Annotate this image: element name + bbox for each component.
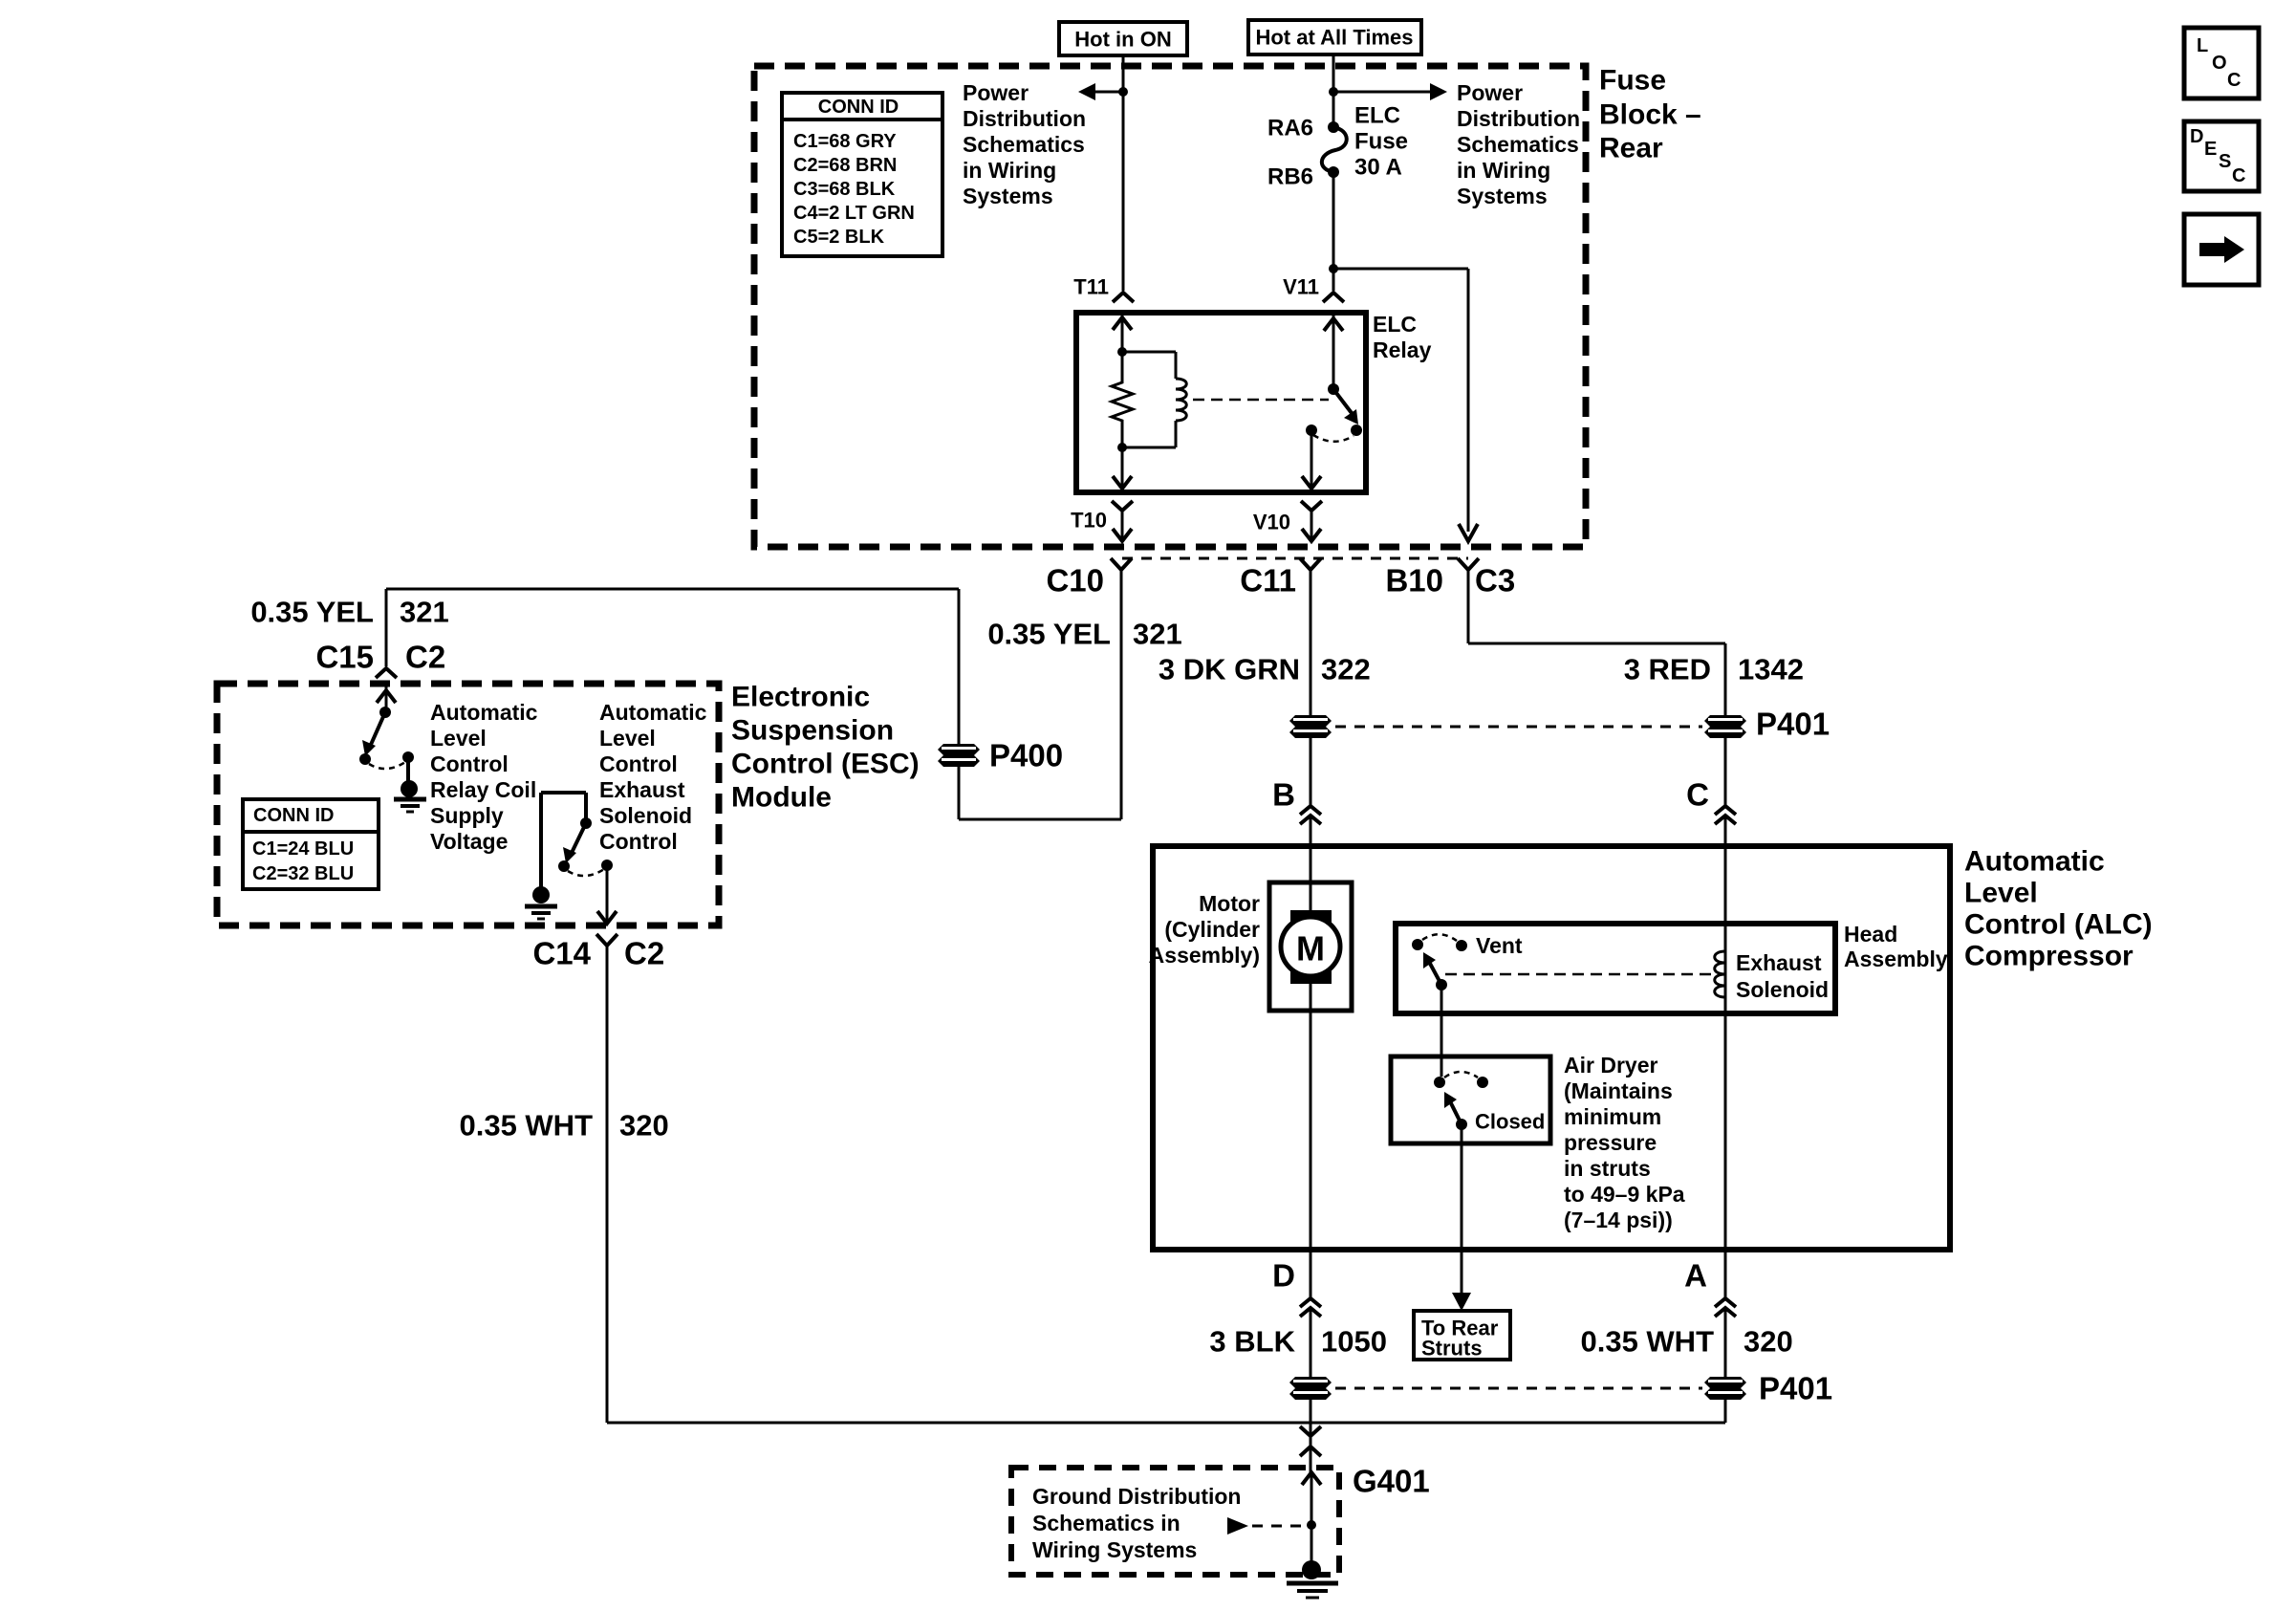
svg-text:ELC: ELC [1354, 103, 1400, 129]
svg-text:C2: C2 [624, 936, 664, 971]
svg-text:P401: P401 [1759, 1371, 1832, 1406]
note Automatic Level Control Relay Coil Supply Voltage [430, 700, 538, 854]
air dryer box [1391, 1056, 1550, 1143]
wire vent switch common [1436, 979, 1447, 1077]
label 3 DK GRN 322 [1159, 653, 1371, 686]
junction B10 branch [1329, 264, 1338, 273]
relay ELC Relay box [1076, 313, 1366, 492]
head assembly box [1396, 924, 1835, 1013]
legend arrow box [2184, 214, 2259, 285]
svg-text:Electronic: Electronic [731, 682, 870, 713]
svg-text:C2=68 BRN: C2=68 BRN [793, 155, 897, 176]
note Motor (Cylinder Assembly) [1149, 891, 1260, 968]
svg-text:in struts: in struts [1564, 1156, 1651, 1181]
svg-text:Power: Power [963, 80, 1029, 105]
svg-text:Rear: Rear [1599, 133, 1663, 164]
svg-text:S: S [2219, 151, 2231, 172]
svg-text:Block –: Block – [1599, 99, 1701, 131]
svg-text:320: 320 [1744, 1325, 1793, 1359]
svg-text:G401: G401 [1353, 1464, 1430, 1499]
dashed reference arrow to ground distribution [1227, 1517, 1306, 1535]
svg-text:Ground Distribution: Ground Distribution [1032, 1484, 1241, 1509]
svg-text:Control: Control [430, 751, 509, 776]
svg-text:Control (ALC): Control (ALC) [1964, 909, 2153, 941]
wire C11 to ALC B (3 DK GRN 322) [1310, 570, 1312, 806]
note power distribution right [1457, 80, 1580, 208]
svg-text:P400: P400 [989, 738, 1063, 773]
svg-text:322: 322 [1321, 653, 1371, 686]
svg-text:Vent: Vent [1476, 933, 1523, 958]
svg-text:C2: C2 [405, 640, 445, 675]
svg-text:Control: Control [599, 751, 678, 776]
ground internal (exhaust solenoid driver) [525, 793, 557, 919]
svg-text:Voltage: Voltage [430, 829, 508, 854]
svg-text:Suspension: Suspension [731, 715, 894, 747]
note Automatic Level Control Exhaust Solenoid Control [599, 700, 707, 854]
svg-text:Automatic: Automatic [599, 700, 707, 725]
svg-text:pressure: pressure [1564, 1130, 1657, 1155]
pin V10 [1253, 501, 1322, 541]
CONN ID table fuse block [782, 93, 942, 256]
component name Fuse Block - Rear [1599, 65, 1701, 164]
svg-text:3 DK GRN: 3 DK GRN [1159, 653, 1300, 686]
svg-text:Closed: Closed [1475, 1110, 1545, 1134]
svg-text:Power: Power [1457, 80, 1523, 105]
svg-text:Schematics: Schematics [963, 132, 1085, 157]
svg-text:Supply: Supply [430, 803, 504, 828]
note Air Dryer (Maintains minimum pressure in struts to 49-9 kPa (7-14 psi)) [1564, 1053, 1685, 1232]
svg-text:3 BLK: 3 BLK [1209, 1325, 1295, 1359]
svg-text:Compressor: Compressor [1964, 941, 2134, 972]
svg-text:C10: C10 [1046, 563, 1104, 599]
relay coil feed wire with up arrow [1113, 316, 1132, 380]
svg-text:Hot in ON: Hot in ON [1074, 28, 1171, 52]
svg-text:minimum: minimum [1564, 1104, 1661, 1129]
svg-text:(Maintains: (Maintains [1564, 1078, 1673, 1103]
svg-text:CONN ID: CONN ID [818, 97, 899, 118]
connector C15 / C2 [315, 640, 445, 679]
pin T11 [1073, 275, 1134, 303]
svg-text:30 A: 30 A [1354, 155, 1402, 181]
fuse block - rear dashed outline [754, 66, 1586, 547]
node To Rear Struts [1414, 1311, 1510, 1361]
ALC compressor box [1153, 846, 1950, 1250]
svg-text:Fuse: Fuse [1599, 65, 1666, 97]
svg-text:321: 321 [1133, 618, 1182, 651]
wire Hot in ON feed [1122, 55, 1125, 291]
svg-text:320: 320 [619, 1109, 669, 1143]
coil relay winding [1122, 352, 1186, 447]
label 0.35 YEL 321 (C15 side) [250, 596, 448, 629]
svg-text:C5=2 BLK: C5=2 BLK [793, 227, 885, 248]
svg-text:V10: V10 [1253, 511, 1290, 534]
svg-text:Relay: Relay [1373, 337, 1432, 362]
svg-text:V11: V11 [1283, 275, 1319, 299]
junction V11 feed [1329, 87, 1338, 97]
wire Hot at All Times feed [1332, 54, 1335, 127]
svg-text:Relay Coil: Relay Coil [430, 777, 536, 802]
ESC exhaust solenoid control switch [541, 793, 613, 876]
connector P401 (WHT wire) [1704, 1371, 1832, 1406]
svg-text:Motor: Motor [1199, 891, 1260, 916]
svg-text:Struts: Struts [1421, 1337, 1483, 1361]
svg-text:Head: Head [1844, 922, 1897, 947]
svg-text:Automatic: Automatic [430, 700, 538, 725]
svg-text:to 49–9 kPa: to 49–9 kPa [1564, 1182, 1685, 1207]
wire motor to D [1310, 1011, 1312, 1297]
ground internal (relay coil supply) [394, 757, 426, 812]
CONN ID table ESC [243, 799, 379, 889]
dashed mechanical link vent to solenoid [1445, 973, 1711, 976]
component name Automatic Level Control (ALC) Compressor [1964, 846, 2153, 972]
node Hot at All Times [1248, 20, 1421, 54]
svg-text:0.35 WHT: 0.35 WHT [459, 1109, 593, 1143]
svg-text:Wiring Systems: Wiring Systems [1032, 1537, 1197, 1562]
connector C14 / C2 [532, 934, 664, 971]
svg-text:C2=32 BLU: C2=32 BLU [252, 863, 354, 884]
svg-text:1050: 1050 [1321, 1325, 1387, 1359]
wire RB6 to V11 [1332, 172, 1335, 291]
value label ELC Fuse 30 A [1354, 103, 1408, 181]
svg-text:1342: 1342 [1738, 653, 1804, 686]
pin B of ALC compressor [1272, 777, 1321, 911]
pin T10 [1071, 501, 1133, 541]
svg-text:0.35 WHT: 0.35 WHT [1580, 1325, 1714, 1359]
label 0.35 WHT 320 (ESC side) [459, 1109, 668, 1143]
svg-text:M: M [1296, 929, 1325, 969]
svg-text:RA6: RA6 [1267, 116, 1313, 142]
svg-text:Exhaust: Exhaust [599, 777, 685, 802]
svg-text:(7–14 psi)): (7–14 psi)) [1564, 1208, 1673, 1232]
wire splice to G401 [1300, 1423, 1321, 1474]
dashed connector tie line P401 upper [1335, 726, 1702, 729]
svg-text:Systems: Systems [1457, 184, 1548, 208]
svg-text:C3: C3 [1475, 563, 1515, 599]
relay common contact [1302, 425, 1354, 490]
svg-text:Schematics: Schematics [1457, 132, 1579, 157]
wire resistor to bottom pin [1113, 425, 1132, 490]
svg-text:Exhaust: Exhaust [1736, 950, 1822, 975]
svg-text:Level: Level [599, 726, 656, 751]
svg-text:Systems: Systems [963, 184, 1053, 208]
svg-text:Solenoid: Solenoid [599, 803, 692, 828]
connector P401 (RED wire) [1704, 707, 1830, 742]
label 3 BLK 1050 [1209, 1325, 1387, 1359]
svg-text:E: E [2204, 139, 2217, 160]
motor M (cylinder assembly) [1269, 882, 1352, 1011]
note Head Assembly [1844, 922, 1948, 971]
svg-text:B10: B10 [1385, 563, 1443, 599]
wire branch to B10 [1333, 269, 1478, 541]
junction T11 feed [1118, 87, 1128, 97]
svg-text:Schematics in: Schematics in [1032, 1511, 1180, 1535]
note power distribution left [963, 80, 1086, 208]
wire C10 to ESC C15 (0.35 YEL 321) [386, 570, 1121, 819]
svg-text:Air Dryer: Air Dryer [1564, 1053, 1657, 1078]
svg-text:Module: Module [731, 782, 832, 814]
resistor relay suppression [1112, 380, 1133, 425]
svg-text:C1=68 GRY: C1=68 GRY [793, 131, 897, 152]
svg-text:Control: Control [599, 829, 678, 854]
svg-text:Assembly): Assembly) [1149, 943, 1260, 968]
svg-text:Level: Level [1964, 878, 2038, 909]
svg-text:0.35 YEL: 0.35 YEL [987, 618, 1111, 651]
wire to power distribution right [1333, 83, 1447, 100]
dashed mechanical link relay [1193, 399, 1329, 402]
svg-text:Distribution: Distribution [963, 106, 1086, 131]
svg-text:Assembly: Assembly [1844, 947, 1948, 971]
connector C11 [1240, 558, 1321, 599]
wire air dryer to rear struts [1452, 1124, 1471, 1311]
svg-text:C4=2 LT GRN: C4=2 LT GRN [793, 203, 915, 224]
connector P400 [938, 738, 1063, 773]
label 0.35 WHT 320 (A side) [1580, 1325, 1792, 1359]
svg-text:ELC: ELC [1373, 312, 1417, 337]
svg-text:C1=24 BLU: C1=24 BLU [252, 838, 354, 860]
pin C of ALC compressor [1686, 777, 1736, 952]
svg-text:C14: C14 [532, 936, 591, 971]
svg-text:C: C [2232, 165, 2245, 186]
svg-text:C15: C15 [315, 640, 374, 675]
wire solenoid to A [1724, 1013, 1727, 1297]
ESC relay coil supply switch [359, 684, 414, 769]
svg-text:CONN ID: CONN ID [253, 805, 334, 826]
svg-text:Hot at All Times: Hot at All Times [1255, 26, 1413, 50]
svg-text:D: D [1272, 1258, 1295, 1294]
node Hot in ON [1059, 22, 1187, 55]
svg-text:T10: T10 [1071, 509, 1107, 533]
svg-text:0.35 YEL: 0.35 YEL [250, 596, 374, 629]
wire G401 drop [1302, 1472, 1321, 1564]
svg-text:A: A [1684, 1258, 1707, 1294]
svg-text:B: B [1272, 777, 1295, 813]
wire D to G401 (3 BLK 1050) [1310, 1308, 1312, 1423]
connector boundary dashed line [1122, 557, 1468, 560]
note Ground Distribution Schematics in Wiring Systems [1032, 1484, 1241, 1562]
svg-text:D: D [2190, 126, 2203, 147]
label 0.35 YEL 321 (C10 side) [987, 618, 1181, 651]
connector P401 (DK GRN wire) [1289, 715, 1332, 738]
label 3 RED 1342 [1624, 653, 1804, 686]
svg-text:O: O [2212, 53, 2227, 74]
svg-text:321: 321 [400, 596, 449, 629]
svg-text:C: C [2227, 70, 2241, 91]
svg-text:P401: P401 [1756, 707, 1830, 742]
solenoid Exhaust Solenoid [1715, 924, 1829, 1013]
ground G401 symbol [1287, 1560, 1338, 1598]
svg-text:Automatic: Automatic [1964, 846, 2105, 878]
svg-text:T11: T11 [1073, 275, 1109, 299]
ground distribution dashed box [1011, 1468, 1339, 1575]
pin D of ALC compressor [1272, 1258, 1321, 1317]
connector C10 [1046, 558, 1132, 599]
svg-text:in Wiring: in Wiring [1457, 158, 1550, 183]
connector P401 (BLK wire) [1289, 1377, 1332, 1400]
wire C3 to ALC C (3 RED 1342) [1468, 570, 1725, 806]
dashed connector tie line P401 lower [1335, 1387, 1702, 1390]
wire C2 to G401 splice (0.35 WHT 320) [607, 946, 1310, 1423]
pin A of ALC compressor [1684, 1258, 1736, 1317]
svg-text:C11: C11 [1240, 563, 1296, 599]
svg-text:in Wiring: in Wiring [963, 158, 1056, 183]
fuse ELC Fuse 30 A [1322, 121, 1347, 178]
component name Electronic Suspension Control (ESC) Module [731, 682, 920, 814]
ESC module dashed outline [217, 684, 719, 925]
svg-text:Solenoid: Solenoid [1736, 977, 1829, 1002]
svg-text:Control (ESC): Control (ESC) [731, 749, 920, 780]
svg-text:C: C [1686, 777, 1709, 813]
wire to power distribution left [1078, 83, 1123, 100]
svg-text:Level: Level [430, 726, 487, 751]
svg-text:(Cylinder: (Cylinder [1164, 917, 1260, 942]
connector B10 / C3 [1385, 558, 1515, 599]
vent switch [1412, 933, 1523, 985]
svg-text:3 RED: 3 RED [1624, 653, 1711, 686]
svg-text:C3=68 BLK: C3=68 BLK [793, 179, 896, 200]
pin V11 [1283, 275, 1344, 303]
svg-text:Distribution: Distribution [1457, 106, 1580, 131]
wire exhaust solenoid control output [597, 865, 617, 924]
legend LOC box [2184, 28, 2259, 98]
wire A to splice (0.35 WHT 320) [1310, 1308, 1725, 1423]
relay switch arm [1324, 316, 1362, 436]
svg-text:RB6: RB6 [1267, 164, 1313, 190]
svg-text:L: L [2197, 35, 2208, 56]
legend DESC box [2184, 121, 2259, 191]
svg-text:Fuse: Fuse [1354, 129, 1408, 155]
